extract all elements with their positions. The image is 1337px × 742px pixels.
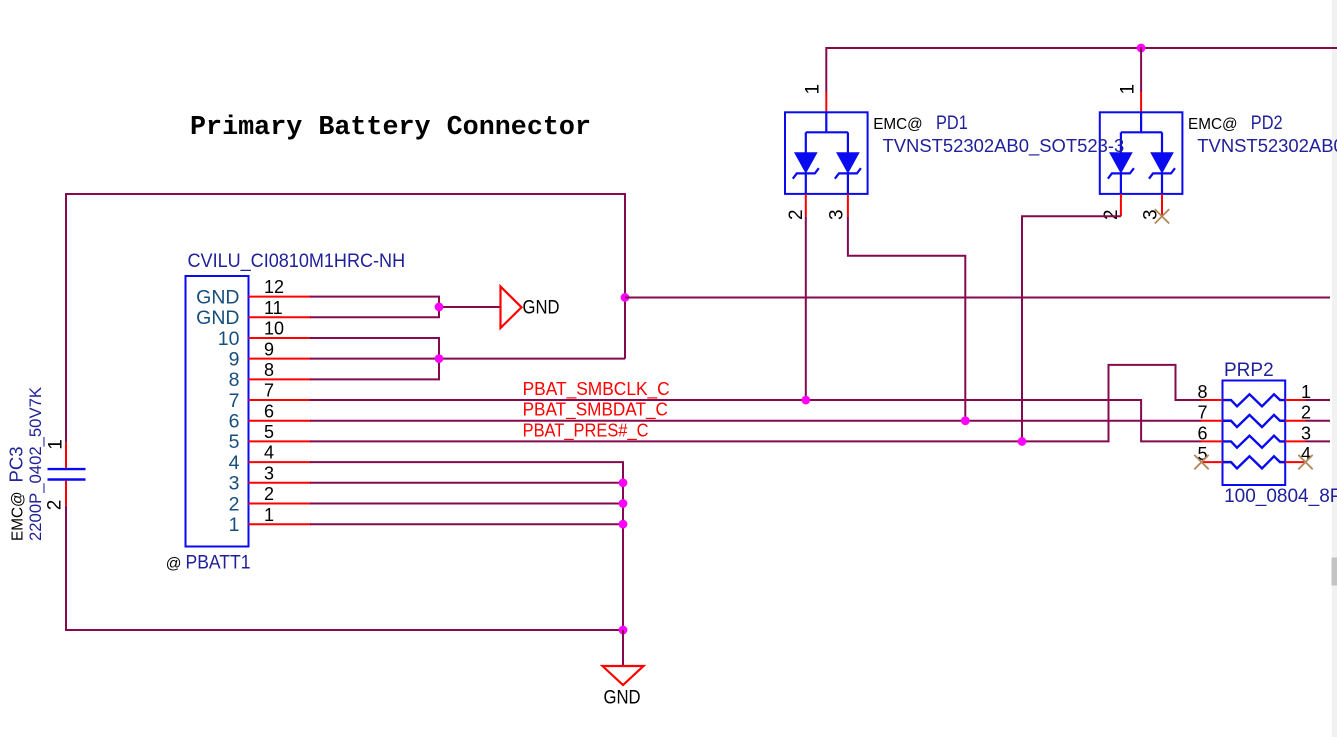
svg-text:PBAT_PRES#_C: PBAT_PRES#_C: [523, 419, 649, 441]
svg-text:1: 1: [1117, 84, 1138, 95]
wire: PRP2 pin 1 to right edge: [1306, 399, 1331, 401]
diode PD1 refdes EMC@ PD1: [873, 113, 968, 134]
svg-text:PD2: PD2: [1251, 113, 1283, 134]
svg-text:11: 11: [264, 298, 283, 318]
svg-text:3: 3: [1140, 209, 1161, 220]
wire: pin 10 to junction B: [310, 338, 439, 359]
wire: pin 3 to bottom vertical: [310, 482, 623, 484]
svg-text:2: 2: [786, 209, 807, 220]
diode PD2 element 1: [1120, 132, 1122, 152]
svg-text:PRP2: PRP2: [1224, 360, 1274, 381]
svg-text:2: 2: [45, 500, 66, 511]
PBATT1 pin 11 stub: [249, 316, 312, 318]
diode PD2 body box: [1100, 112, 1183, 194]
svg-text:8: 8: [1197, 382, 1207, 402]
svg-text:10: 10: [218, 328, 240, 350]
svg-text:1: 1: [45, 439, 66, 450]
svg-text:2: 2: [1101, 209, 1122, 220]
diode PD1 pin 1 stub: [825, 92, 827, 112]
junction dot PD1 pin3/SMBDAT: [961, 416, 970, 425]
net PBAT_SMBDAT_C wire: [310, 420, 1201, 422]
svg-text:9: 9: [229, 348, 240, 370]
PRP2 resistor element 1: [1223, 394, 1286, 406]
svg-text:TVNST52302AB0_SOT523-3: TVNST52302AB0_SOT523-3: [883, 136, 1125, 157]
wire: loop bottom horizontal: [66, 629, 623, 631]
svg-text:TVNST52302AB0_SOT523-3: TVNST52302AB0_SOT523-3: [1197, 136, 1337, 157]
diode PD1 element 2: [847, 132, 849, 152]
wire: PRP2 pin 2 to right edge: [1306, 420, 1331, 422]
capacitor PC3 symbol: [65, 442, 67, 468]
wire: pin 11 to junction A: [310, 307, 439, 317]
diode PD1 pin 3 stub: [847, 194, 849, 216]
wire: GND net horizontal to right edge: [625, 296, 1330, 298]
wire: pin 4 to bottom vertical: [310, 462, 623, 631]
svg-text:CVILU_CI0810M1HRC-NH: CVILU_CI0810M1HRC-NH: [188, 251, 406, 272]
diode PD2 refdes EMC@ PD2: [1188, 113, 1283, 134]
wire: loop left lower (capacitor pin 2 down): [65, 506, 67, 631]
PRP2 resistor element 3: [1223, 436, 1286, 448]
svg-text:8: 8: [264, 360, 274, 380]
PBATT1 pin 10 stub: [249, 337, 312, 339]
PBATT1 pin 5 stub: [249, 440, 312, 442]
svg-text:PBAT_SMBDAT_C: PBAT_SMBDAT_C: [523, 399, 668, 421]
wire: PD1 pin 2 down to SMBCLK: [805, 216, 807, 400]
PBATT1 pin 8 stub: [249, 378, 312, 380]
junction dot pin 1: [619, 520, 628, 529]
wire: top rail: [826, 47, 1337, 49]
svg-text:10: 10: [264, 319, 284, 339]
svg-text:5: 5: [264, 422, 274, 442]
diode PD2 pin 1 stub: [1140, 92, 1142, 112]
diode PD2 element 2: [1161, 132, 1163, 152]
svg-text:4: 4: [264, 443, 274, 463]
wire: pin 2 to bottom vertical: [310, 503, 623, 505]
PRP2 pin 2 stub: [1285, 420, 1305, 422]
svg-text:2200P_0402_50V7K: 2200P_0402_50V7K: [26, 386, 45, 541]
svg-text:PC3: PC3: [6, 447, 27, 483]
svg-text:8: 8: [229, 369, 240, 391]
diode PD1 internal bus: [825, 112, 827, 132]
diode PD2 pin 3 stub: [1161, 194, 1163, 216]
no-connect X on PRP2 pin 5: [1194, 455, 1208, 469]
diode PD1 pin 2 stub: [805, 194, 807, 216]
svg-text:EMC@: EMC@: [1188, 116, 1238, 133]
diode PD2 internal bus: [1140, 112, 1142, 132]
junction dot pin 3: [619, 478, 628, 487]
no-connect X on PRP2 pin 4: [1298, 455, 1312, 469]
svg-text:GND: GND: [196, 286, 239, 308]
net PBAT_PRES#_C wire: [310, 365, 1201, 442]
PRP2 pin 5 stub: [1201, 461, 1223, 463]
PRP2 pin 3 stub: [1285, 440, 1305, 442]
svg-text:GND: GND: [523, 297, 560, 319]
wire: PD2 pin 1 riser: [1140, 47, 1142, 92]
svg-text:1: 1: [803, 84, 824, 95]
wire: pin 12 to junction A: [310, 297, 439, 307]
diode PD1 body box: [785, 112, 868, 194]
PBATT1 pin 12 stub: [249, 296, 312, 298]
svg-text:PBATT1: PBATT1: [186, 552, 251, 573]
svg-text:1: 1: [264, 505, 274, 525]
junction dot pin 2: [619, 499, 628, 508]
capacitor PC3 refdes EMC@ PC3: [6, 447, 27, 542]
junction B dot: [435, 354, 444, 363]
PRP2 resistor element 2: [1223, 415, 1286, 427]
svg-text:1: 1: [229, 514, 240, 536]
wire: PD1 pin 3 to SMBDAT: [848, 216, 965, 420]
PBATT1 pin 2 stub: [249, 503, 312, 505]
svg-text:5: 5: [229, 431, 240, 453]
svg-text:PD1: PD1: [936, 113, 968, 134]
svg-text:GND: GND: [196, 307, 239, 329]
wire: PD1 pin 1 riser: [825, 47, 827, 92]
wire: loop right vertical: [624, 193, 626, 359]
PBATT1 pin 7 stub: [249, 399, 312, 401]
connector J-body PBATT1: [186, 276, 249, 547]
svg-text:9: 9: [264, 339, 274, 359]
wire: loop left upper (to capacitor pin 1): [65, 193, 67, 442]
PRP2 pin 1 stub: [1285, 399, 1305, 401]
svg-text:3: 3: [229, 473, 240, 495]
diode PD2 pin 2 stub: [1120, 194, 1122, 216]
junction dot top rail / PD2 riser: [1137, 44, 1146, 53]
connector PBATT1 refdes @ PBATT1: [166, 552, 251, 573]
PBATT1 pin 3 stub: [249, 482, 312, 484]
wire: PRP2 pin 3 to right edge: [1306, 440, 1331, 442]
PRP2 pin 4 stub: [1285, 461, 1305, 463]
wire: pin 8 to junction B: [310, 359, 439, 380]
svg-text:2: 2: [229, 493, 240, 515]
svg-text:GND: GND: [604, 687, 641, 709]
junction dot loop bottom corner: [619, 626, 628, 635]
wire: pin 1 to bottom vertical: [310, 523, 623, 525]
junction A dot: [435, 303, 444, 312]
svg-text:7: 7: [264, 381, 274, 401]
junction dot PD1 pin2/SMBCLK: [801, 396, 810, 405]
PBATT1 pin 1 stub: [249, 523, 312, 525]
svg-text:7: 7: [229, 390, 240, 412]
svg-text:EMC@: EMC@: [873, 116, 923, 133]
svg-text:Primary Battery Connector: Primary Battery Connector: [190, 113, 591, 143]
svg-text:6: 6: [1197, 423, 1207, 443]
PBATT1 pin 9 stub: [249, 358, 312, 360]
wire: pin 9 to loop right: [310, 358, 625, 360]
PRP2 resistor element 4: [1223, 456, 1286, 468]
PBATT1 pin 4 stub: [249, 461, 312, 463]
PRP2 pin 6 stub: [1201, 440, 1223, 442]
PRP2 pin 8 stub: [1201, 399, 1223, 401]
junction C dot (GND net tap on loop right): [621, 293, 630, 302]
power symbol GND (right): [501, 287, 522, 329]
svg-text:4: 4: [229, 452, 240, 474]
junction dot PD2 pin2/PRES#: [1018, 437, 1027, 446]
power symbol GND (down): [603, 666, 644, 685]
PRP2 pin 7 stub: [1201, 420, 1223, 422]
svg-text:3: 3: [264, 463, 274, 483]
svg-text:12: 12: [264, 277, 284, 297]
net PBAT_SMBCLK_C wire: [310, 400, 1201, 441]
svg-text:3: 3: [826, 209, 847, 220]
svg-text:7: 7: [1197, 403, 1207, 423]
no-connect X on PD2 pin 3: [1155, 209, 1169, 223]
diode PD1 element 1: [805, 132, 807, 152]
resistor pack PRP2 body: [1223, 381, 1286, 486]
PBATT1 pin 6 stub: [249, 420, 312, 422]
svg-text:100_0804_8P4R: 100_0804_8P4R: [1224, 486, 1337, 507]
svg-text:2: 2: [264, 484, 274, 504]
wire: bottom vertical to GND symbol: [622, 630, 624, 666]
wire: PD2 pin 2 to PRES#: [1022, 216, 1121, 441]
svg-text:EMC@: EMC@: [10, 491, 27, 541]
svg-text:6: 6: [229, 411, 240, 433]
wire: junction A to GND symbol: [439, 306, 501, 308]
svg-text:@: @: [166, 555, 182, 572]
svg-text:6: 6: [264, 401, 274, 421]
wire: loop top horizontal: [66, 193, 625, 195]
svg-text:PBAT_SMBCLK_C: PBAT_SMBCLK_C: [523, 378, 670, 400]
